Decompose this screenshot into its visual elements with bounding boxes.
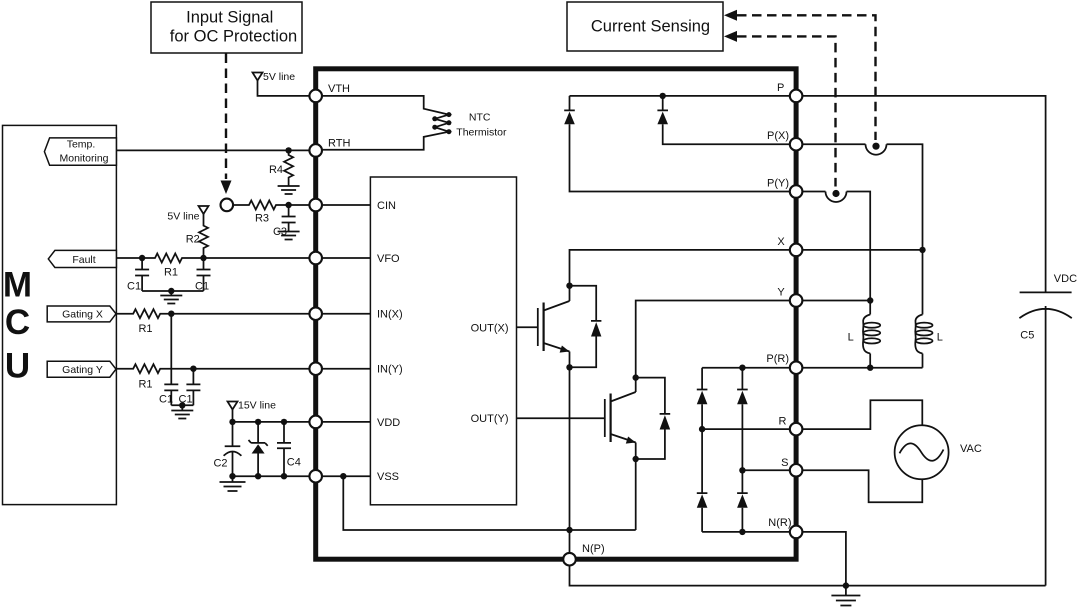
svg-text:M: M (3, 266, 32, 305)
svg-text:VTH: VTH (328, 83, 350, 95)
IC module border U1 (316, 69, 796, 559)
node S bridge junction (739, 467, 745, 473)
pin R (790, 423, 803, 436)
capacitor C2 (polarized) (224, 422, 242, 476)
wire S to VAC (802, 470, 922, 502)
pin VDD (309, 416, 322, 429)
5V line symbol (VTH) (253, 73, 263, 81)
wire Fault to VFO with resistor R1 (116, 254, 309, 263)
svg-text:C2: C2 (213, 458, 227, 470)
node C1 ground junction (168, 288, 174, 294)
wire OC node to CIN with resistor R3 (233, 201, 309, 210)
dashed current sensing arrow lower (724, 31, 737, 42)
node VDD junction DZ (255, 419, 261, 425)
current sensor X dot (872, 143, 879, 150)
wire VSS rail (233, 475, 310, 477)
wire Q2 emitter down (635, 443, 637, 531)
transistor Q1 IGBT (X) (537, 308, 539, 346)
svg-text:C4: C4 (287, 457, 301, 469)
svg-text:OUT(Y): OUT(Y) (471, 413, 509, 425)
capacitor C4 (277, 422, 291, 476)
ground (C3) (278, 232, 300, 240)
dashed OC input arrow (225, 54, 227, 180)
wire IN(Y) pin to block (322, 368, 370, 370)
wire 5V to VTH (258, 81, 310, 96)
svg-text:Monitoring: Monitoring (59, 153, 108, 165)
Q1 emitter arrow (560, 346, 570, 353)
gate driver inner block (370, 177, 516, 505)
svg-text:R1: R1 (138, 379, 152, 391)
svg-text:5V line: 5V line (263, 71, 295, 83)
wire 15V to VDD rail (232, 410, 234, 422)
wire R to VAC (802, 400, 922, 429)
node collector X junction (566, 283, 572, 289)
svg-text:P(Y): P(Y) (767, 178, 789, 190)
pin VSS (309, 470, 322, 483)
node VSS junction DZ (255, 473, 261, 479)
wire OUT(X) to gate (517, 326, 538, 328)
svg-text:Y: Y (777, 287, 785, 299)
bridge diode D5 (left top) (697, 368, 708, 429)
wire Y line internal (636, 301, 790, 393)
svg-text:N(R): N(R) (768, 517, 791, 529)
svg-text:IN(X): IN(X) (377, 309, 403, 321)
bridge diode D6 (left bottom) (697, 429, 708, 532)
svg-text:L: L (848, 332, 854, 344)
pin S (790, 464, 803, 477)
node ground bus junction (843, 582, 849, 588)
svg-text:C: C (5, 303, 30, 342)
svg-text:VFO: VFO (377, 253, 400, 265)
svg-text:VDD: VDD (377, 417, 400, 429)
node IN(Y) junction (190, 366, 196, 372)
wire X line internal (570, 250, 790, 301)
wire VFO pin to block (322, 257, 370, 259)
wire P line internal (570, 95, 790, 97)
ground (main) (831, 586, 860, 606)
Gating Y port (47, 361, 116, 377)
transistor Q2 IGBT (Y) (604, 399, 606, 437)
wire Gating Y to IN(Y) with resistor R1 (116, 364, 309, 373)
wire L left to P(R) (869, 354, 871, 368)
pin VTH (309, 90, 322, 103)
wire CIN pin to block (322, 204, 370, 206)
node OC input circle (221, 199, 234, 212)
Q2 emitter arrow (626, 437, 636, 444)
svg-text:R3: R3 (255, 213, 269, 225)
svg-text:CIN: CIN (377, 200, 396, 212)
MCU block (3, 125, 117, 504)
svg-text:Input Signal: Input Signal (186, 9, 273, 27)
svg-text:VAC: VAC (960, 443, 982, 455)
resistor R4 (284, 150, 293, 186)
node P(R) inductor junction (867, 365, 873, 371)
svg-text:S: S (781, 457, 788, 469)
svg-text:IN(Y): IN(Y) (377, 364, 403, 376)
wire Y external (802, 300, 870, 302)
node VSS junction C4 (281, 473, 287, 479)
wire IN(X) pin to block (322, 313, 370, 315)
svg-text:L: L (937, 332, 943, 344)
wire VDD pin to block (322, 421, 370, 423)
wire VSS pin to block (322, 475, 370, 477)
node gating C1 ground junction (179, 402, 185, 408)
svg-text:5V line: 5V line (167, 210, 199, 222)
svg-text:Current Sensing: Current Sensing (591, 18, 710, 36)
wire P(X) external with current sensor (802, 144, 922, 314)
pin X (790, 244, 803, 257)
node Fault junction right (200, 255, 206, 261)
Input Signal for OC Protection box (151, 2, 302, 53)
pin P(X) (790, 138, 803, 151)
wire VTH to NTC (322, 96, 449, 150)
wire Q1 emitter down (569, 352, 571, 531)
svg-text:X: X (777, 236, 785, 248)
node Y inductor junction (867, 297, 873, 303)
resistor R2 (199, 214, 208, 258)
svg-text:R: R (779, 415, 787, 427)
ground (fault C1) (160, 291, 182, 304)
boost diode D2 (to P(X)) (657, 96, 789, 144)
node Fault junction left (139, 255, 145, 261)
boost diode D1 (to P(Y)) (564, 96, 790, 192)
svg-text:VDC: VDC (1054, 273, 1077, 285)
svg-text:R4: R4 (269, 164, 283, 176)
capacitor C3 (282, 205, 296, 232)
pin P (790, 90, 803, 103)
Temp. Monitoring port (44, 138, 116, 165)
wire C1 pair bottom rail (142, 290, 203, 292)
svg-text:Fault: Fault (72, 254, 95, 266)
ground (C2) (220, 476, 246, 491)
wire P external to VDC (802, 96, 1045, 293)
node VSS junction C2 (229, 473, 235, 479)
node P(R) bridge junction (739, 365, 745, 371)
current sensor (X) (866, 144, 887, 155)
capacitor C1 (gating Y) (186, 369, 200, 406)
svg-text:U: U (5, 347, 30, 386)
svg-text:R1: R1 (164, 267, 178, 279)
svg-text:Thermistor: Thermistor (456, 126, 507, 138)
pin CIN (309, 199, 322, 212)
svg-text:Gating Y: Gating Y (62, 364, 103, 376)
wire R line internal (702, 428, 790, 430)
node X inductor junction (919, 247, 925, 253)
node IN(X) junction (168, 311, 174, 317)
svg-text:P: P (777, 82, 784, 94)
wire N junction to N(P) (569, 530, 571, 553)
pin RTH (309, 144, 322, 157)
node R bridge junction (699, 426, 705, 432)
svg-text:15V line: 15V line (238, 400, 276, 412)
svg-text:C5: C5 (1020, 330, 1034, 342)
node collector Y junction (633, 374, 639, 380)
svg-text:C1: C1 (159, 394, 173, 406)
pin N(R) (790, 526, 803, 539)
wire N(R) rail internal (702, 531, 790, 533)
node N(R) bridge junction (739, 529, 745, 535)
wire S line internal (742, 469, 789, 471)
pin P(R) (790, 361, 803, 374)
pin N(P) (563, 553, 576, 566)
svg-text:Gating X: Gating X (62, 309, 103, 321)
bridge diode D7 (right top) (737, 368, 748, 471)
svg-text:RTH: RTH (328, 138, 350, 150)
wire N(P) to ground bus (570, 566, 1046, 586)
zener diode DZ (249, 422, 268, 476)
wire Gating X to IN(X) with resistor R1 (116, 309, 309, 318)
current sensor Y dot (832, 190, 839, 197)
pin IN(X) (309, 307, 322, 320)
node Q1 emitter junction (566, 364, 572, 370)
svg-text:OUT(X): OUT(X) (471, 322, 509, 334)
capacitor C1 (fault left) (135, 258, 149, 291)
wire P(Y) external with current sensor (802, 192, 870, 315)
dashed current sensing arrow upper (724, 10, 737, 21)
5V line symbol (R2) (199, 206, 209, 214)
node VDD junction C2 (229, 419, 235, 425)
svg-text:N(P): N(P) (582, 543, 605, 555)
pin P(Y) (790, 185, 803, 198)
svg-text:C1: C1 (127, 281, 141, 293)
VAC source (895, 425, 949, 479)
node P line junction (660, 93, 666, 99)
node N junction (566, 527, 572, 533)
15V line symbol (228, 402, 238, 410)
current sensor (Y) (826, 192, 847, 203)
wire L right to P(R) (922, 354, 924, 368)
node Q2 emitter junction (633, 456, 639, 462)
svg-text:P(X): P(X) (767, 130, 789, 142)
wire Temp.Monitoring to RTH (116, 149, 309, 151)
capacitor C1 (gating X) (164, 314, 178, 406)
capacitor C5 (VDC bus) (1019, 292, 1071, 585)
wire gating C1 bottom rail (171, 404, 193, 406)
svg-text:R2: R2 (186, 234, 200, 246)
ground (R4) (278, 186, 300, 194)
svg-text:R1: R1 (138, 323, 152, 335)
svg-text:VSS: VSS (377, 471, 399, 483)
svg-text:NTC: NTC (469, 111, 491, 123)
node RTH junction (285, 147, 291, 153)
svg-text:for OC Protection: for OC Protection (170, 28, 297, 46)
wire VSS to N line (343, 476, 635, 530)
NTC thermistor R5 (446, 112, 451, 117)
node VDD junction C4 (281, 419, 287, 425)
Gating X port (47, 306, 116, 322)
Current Sensing box (567, 2, 723, 51)
ground (gating C1) (171, 405, 193, 418)
wire OUT(Y) to gate (517, 417, 605, 419)
pin IN(Y) (309, 362, 322, 375)
bridge diode D8 (right bottom) (737, 470, 748, 532)
wire VDD rail (233, 421, 310, 423)
svg-text:Temp.: Temp. (67, 139, 96, 151)
inductor L (right) (915, 315, 922, 354)
pin Y (790, 294, 803, 307)
wire N(R) external (802, 532, 846, 586)
svg-text:P(R): P(R) (766, 353, 789, 365)
node VSS junction (340, 473, 346, 479)
freewheel diode D3 (X) (570, 286, 602, 368)
capacitor C1 (fault right) (197, 258, 211, 291)
node CIN junction (285, 202, 291, 208)
Fault port (48, 250, 116, 267)
inductor L (left) (863, 315, 870, 354)
pin VFO (309, 252, 322, 265)
wire P(R) external (802, 367, 922, 369)
wire X external (802, 249, 922, 251)
freewheel diode D4 (Y) (636, 378, 671, 459)
wire P(R) rail internal (702, 367, 790, 369)
